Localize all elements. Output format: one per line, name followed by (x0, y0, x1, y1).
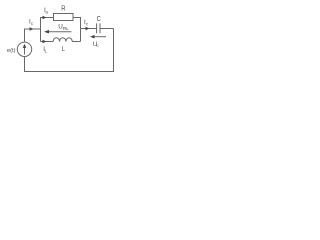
svg-text:L: L (62, 46, 65, 53)
svg-text:e(t): e(t) (7, 48, 16, 54)
svg-text:L: L (45, 49, 48, 54)
svg-text:R: R (61, 6, 65, 13)
svg-text:RL: RL (63, 26, 69, 31)
svg-text:a: a (45, 10, 48, 15)
svg-text:C: C (97, 16, 101, 23)
